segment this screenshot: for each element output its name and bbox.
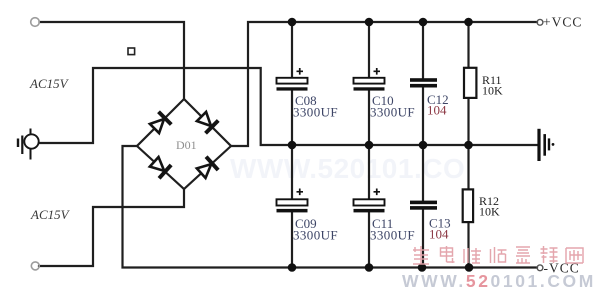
wire C11 leads — [368, 145, 370, 199]
svg-text:10K: 10K — [479, 205, 500, 219]
resistor R12 — [463, 189, 500, 222]
wire -DC drop and bottom bus — [123, 146, 538, 268]
node top bus C08 — [288, 18, 297, 27]
ground — [539, 129, 554, 161]
terminal center tap — [18, 129, 39, 160]
svg-text:104: 104 — [429, 227, 449, 242]
node mid rail C12 — [419, 141, 428, 150]
svg-text:3300UF: 3300UF — [293, 105, 338, 120]
svg-text:3300UF: 3300UF — [370, 105, 415, 120]
svg-text:WWW.520101.CO: WWW.520101.CO — [230, 153, 465, 184]
svg-text:104: 104 — [427, 103, 447, 118]
capacitor C13 — [410, 201, 451, 242]
resistor R11 — [464, 68, 503, 98]
bridge D01 diamond edges — [137, 99, 231, 189]
wire C13 leads — [422, 145, 424, 201]
wire center-tap run — [39, 68, 290, 145]
marker square — [128, 48, 135, 55]
svg-text:3300UF: 3300UF — [293, 228, 338, 243]
wire C10 leads — [368, 22, 370, 78]
svg-text:3300UF: 3300UF — [370, 228, 415, 243]
node mid rail C10 — [365, 141, 374, 150]
terminal AC1 — [31, 18, 40, 27]
svg-text:WWW.520101.COM: WWW.520101.COM — [402, 271, 596, 291]
diode D01 bottom-right — [195, 155, 219, 180]
svg-text:D01: D01 — [176, 138, 197, 152]
node bottom bus C13 — [418, 263, 427, 272]
watermark chinese chars — [413, 246, 583, 264]
capacitor C11 — [354, 189, 416, 243]
wire AC2 bottom run — [39, 189, 184, 266]
wire R11 leads — [467, 22, 469, 68]
wire mid ground rail — [290, 144, 539, 146]
wire C12 leads — [422, 22, 424, 78]
node bottom bus R12 — [465, 263, 474, 272]
diode D01 top-left — [148, 110, 173, 135]
capacitor C12 — [410, 78, 449, 117]
wire +DC riser and top bus — [231, 22, 537, 146]
svg-text:+VCC: +VCC — [543, 15, 582, 30]
node top bus C12 — [419, 18, 428, 27]
node top bus C10 — [365, 18, 374, 27]
diode D01 top-right — [195, 110, 220, 135]
wire C08 leads — [291, 22, 293, 78]
node bottom bus C11 — [365, 263, 374, 272]
capacitor C10 — [354, 68, 416, 120]
diode D01 bottom-left — [148, 155, 172, 180]
node mid rail C08 — [288, 141, 297, 150]
svg-text:AC15V: AC15V — [29, 76, 70, 91]
capacitor C08 — [277, 68, 339, 120]
terminal +VCC — [537, 19, 543, 25]
wire R12 leads — [467, 145, 469, 189]
terminal -VCC — [537, 265, 543, 271]
terminal AC2 — [31, 262, 39, 270]
capacitor C09 — [277, 189, 339, 243]
node top bus R11 — [464, 18, 473, 27]
wire C09 leads — [291, 145, 293, 199]
node bottom bus C09 — [288, 263, 297, 272]
svg-text:AC15V: AC15V — [30, 207, 71, 222]
node mid rail R11 — [464, 141, 473, 150]
wire AC1 top horizontal — [40, 22, 185, 99]
svg-text:10K: 10K — [482, 84, 503, 98]
